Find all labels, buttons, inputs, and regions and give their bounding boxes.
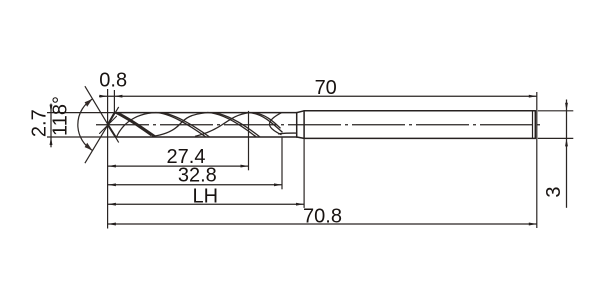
chisel edge line through apex: [100, 116, 117, 133]
dimension lines: [51, 96, 567, 224]
ascending flute edge 3: [195, 113, 249, 137]
dim line 2.7 (vertical, left): [50, 104, 52, 148]
svg-text:70: 70: [315, 77, 337, 99]
70 right arrow (points right): [529, 95, 537, 98]
dim line 27.4: [108, 165, 249, 167]
body top edge: [115, 112, 297, 114]
2.7 top arrow (outside, points down): [50, 105, 53, 113]
runout tail: [278, 132, 297, 135]
0.8 left arrow (outside, points right): [100, 95, 108, 98]
svg-text:2.7: 2.7: [28, 109, 50, 137]
margin band 1 (from point corner): [115, 113, 152, 136]
body bottom edge: [116, 136, 297, 138]
dim line LH: [108, 203, 304, 205]
dim line 70.8: [108, 223, 537, 225]
taper top to shank: [297, 111, 304, 113]
ext line 2.7 bottom: [47, 136, 115, 138]
3 bottom arrow (outside, points up): [565, 138, 568, 146]
ext line 32.8 x=282: [281, 138, 283, 190]
32.8 right arrow: [274, 183, 282, 186]
32.8 left arrow: [108, 183, 116, 186]
70.8 left arrow: [108, 223, 116, 226]
drill point cone bottom edge: [108, 125, 116, 137]
ext line LH x=304.1: [303, 139, 305, 208]
shank end cap: [534, 111, 536, 139]
arc arrowhead top: [85, 99, 93, 107]
27.4 right arrow: [241, 165, 249, 168]
svg-text:70.8: 70.8: [303, 205, 342, 227]
shank end chamfer line: [532, 111, 534, 138]
drill point cone top edge: [108, 113, 115, 125]
dim line 32.8: [108, 184, 282, 186]
shank bottom edge: [304, 137, 535, 139]
centerline (drill axis, dash-dot): [96, 124, 543, 126]
flute helix curves: [115, 113, 297, 138]
ascending flute edge 2: [152, 113, 208, 137]
extension lines: [47, 89, 573, 229]
flute runout curve: [270, 113, 282, 135]
ext line 3 bottom: [538, 137, 574, 139]
ext line 2.7 top: [47, 112, 114, 114]
118 deg construction line (upper-left to lower-right): [85, 86, 119, 142]
ext line at drill tip x=107.6: [107, 89, 109, 229]
dimension texts: [28, 70, 565, 228]
118 deg construction line (lower-left to upper-right): [85, 107, 119, 163]
body end vertical: [296, 113, 298, 137]
margin band 3: [208, 113, 256, 137]
margin band 2: [156, 113, 206, 137]
70.8 right arrow: [529, 223, 537, 226]
LH left arrow: [108, 203, 116, 206]
118 deg angle arc: [78, 99, 93, 150]
LH right arrow: [296, 203, 304, 206]
0.8 right / 70 left arrow (points left): [114, 95, 122, 98]
svg-text:0.8: 0.8: [99, 70, 127, 92]
shank top edge: [304, 110, 535, 112]
svg-text:118°: 118°: [49, 96, 71, 136]
svg-text:LH: LH: [193, 186, 219, 208]
27.4 left arrow: [108, 165, 116, 168]
dim line 3 (vertical, right): [566, 100, 568, 208]
ext line right end x=536.8: [536, 92, 538, 228]
arc arrowhead bottom: [85, 143, 93, 151]
arrowheads: [50, 95, 568, 226]
3 top arrow (outside, points down): [565, 103, 568, 111]
ascending flute edge 1: [117, 113, 156, 137]
ext line at point end x=114.4: [113, 90, 115, 112]
margin band 4 (runs into runout): [249, 113, 283, 133]
shank joint vertical: [303, 111, 305, 139]
ext line 3 top: [538, 110, 574, 112]
svg-text:32.8: 32.8: [178, 165, 217, 187]
ext line 27.4 x=248.5: [248, 111, 250, 170]
2.7 bottom arrow (outside, points up): [50, 137, 53, 145]
svg-text:3: 3: [543, 186, 565, 197]
taper bottom to shank: [297, 137, 304, 138]
dim line 0.8 / 70: [99, 95, 537, 97]
